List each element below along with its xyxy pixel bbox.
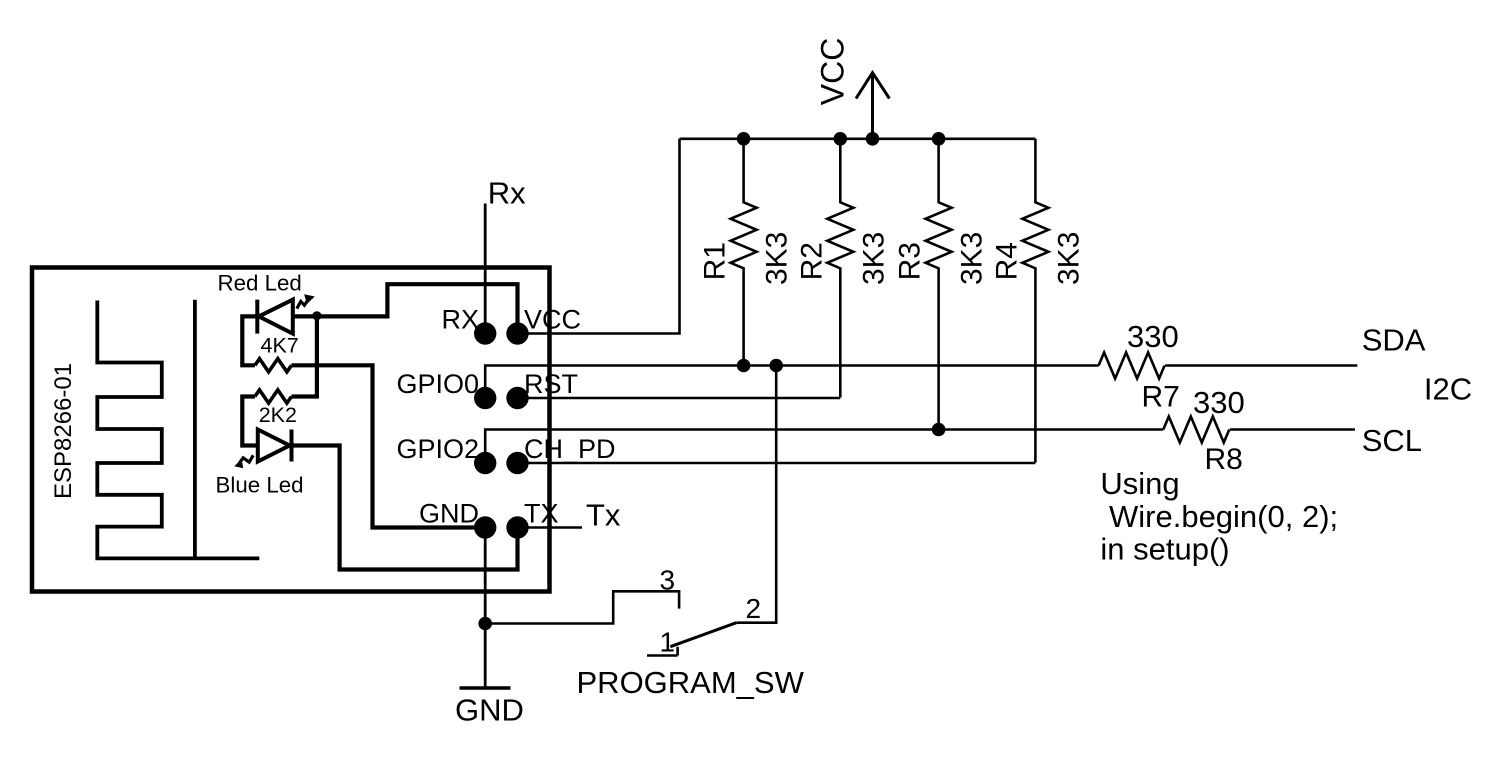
wire blue led cathode to TX pin	[292, 446, 518, 570]
pin CH_PD	[506, 452, 528, 474]
pin RST	[506, 387, 528, 409]
svg-text:330: 330	[1193, 385, 1245, 420]
resistor R8	[1163, 417, 1229, 443]
wire CH_PD net to R4	[518, 462, 1036, 465]
wire R7 to SDA label	[1165, 364, 1357, 367]
VCC power symbol stem	[871, 74, 874, 139]
svg-text:2K2: 2K2	[259, 403, 297, 427]
ground symbol bar	[460, 686, 511, 690]
junction GND switch	[478, 617, 492, 631]
svg-text:330: 330	[1127, 319, 1179, 354]
wire GND junction to switch pin3	[485, 591, 679, 623]
resistor 2K2	[255, 390, 292, 403]
resistor R1	[731, 139, 757, 366]
junction SDA switch	[769, 359, 783, 373]
wire junction to VCC pin over-route	[317, 284, 518, 324]
wire junction down to 2K2	[292, 316, 317, 396]
VCC power symbol arrow	[856, 73, 889, 99]
svg-text:3: 3	[660, 564, 676, 595]
wire TX net stub	[518, 526, 583, 529]
svg-text:GPIO0: GPIO0	[396, 369, 479, 399]
svg-text:RST: RST	[524, 369, 578, 399]
junction bus R1	[737, 132, 751, 146]
svg-text:ESP8266-01: ESP8266-01	[50, 363, 77, 499]
pin TX	[506, 516, 528, 538]
svg-text:R2: R2	[795, 242, 828, 280]
LED D2 light arrow	[239, 455, 253, 463]
svg-text:Using: Using	[1100, 466, 1179, 501]
svg-text:TX: TX	[524, 499, 559, 529]
svg-text:CH_PD: CH_PD	[524, 434, 616, 464]
svg-text:1: 1	[660, 627, 676, 658]
wire VCC pin to bus drop	[518, 139, 680, 334]
svg-text:R7: R7	[1142, 381, 1180, 414]
wire 2K2 left to blue led anode	[242, 397, 257, 446]
resistor R7	[1099, 353, 1165, 379]
module U1 box ESP8266-01	[32, 268, 550, 592]
junction bus VCC stem	[866, 132, 880, 146]
pin RX	[474, 322, 496, 344]
svg-text:3K3: 3K3	[1053, 232, 1086, 285]
svg-text:I2C: I2C	[1424, 372, 1472, 407]
pin GPIO0	[474, 387, 496, 409]
svg-text:3K3: 3K3	[956, 232, 989, 285]
wire SCL net GPIO2 to R8	[485, 430, 1163, 464]
svg-text:2: 2	[746, 593, 762, 624]
svg-text:GND: GND	[455, 693, 524, 728]
svg-text:R8: R8	[1205, 443, 1243, 476]
wire red led anode to junction	[293, 314, 317, 318]
svg-text:4K7: 4K7	[261, 334, 299, 358]
svg-text:RX: RX	[441, 305, 479, 335]
svg-text:GND: GND	[419, 499, 479, 529]
wire 4K7 right to GND pin	[292, 365, 477, 527]
switch pin1 stub	[647, 647, 678, 656]
LED D2 Blue Led triangle	[258, 430, 290, 462]
wire red led cathode to 4K7 left	[242, 316, 257, 365]
pin VCC	[506, 322, 528, 344]
LED D1 Red Led triangle	[259, 300, 293, 334]
resistor 4K7	[255, 359, 292, 372]
wire R8 to SCL label	[1230, 428, 1355, 431]
antenna feed line	[193, 300, 197, 559]
svg-text:Red Led: Red Led	[218, 271, 302, 296]
wire Rx net stub	[484, 204, 487, 334]
svg-text:R3: R3	[894, 242, 927, 280]
svg-text:VCC: VCC	[814, 38, 850, 106]
svg-text:SDA: SDA	[1362, 322, 1426, 357]
antenna meander	[97, 301, 259, 559]
LED D1 light arrow	[297, 300, 308, 309]
svg-text:Wire.begin(0, 2);: Wire.begin(0, 2);	[1100, 499, 1338, 534]
svg-text:SCL: SCL	[1362, 423, 1422, 458]
wire SDA net GPIO0 to R7	[485, 366, 1098, 399]
wire switch pin2 to SDA junction	[736, 366, 776, 623]
svg-text:VCC: VCC	[524, 305, 581, 335]
junction bus R2	[834, 132, 848, 146]
wire GND pin down	[484, 528, 487, 689]
junction SCL R3	[932, 423, 946, 437]
svg-text:3K3: 3K3	[857, 232, 890, 285]
pin GND	[474, 516, 496, 538]
junction led node	[312, 311, 321, 320]
svg-text:in setup(): in setup()	[1100, 532, 1229, 567]
svg-text:3K3: 3K3	[761, 232, 794, 285]
wire RST net RST pin to R2	[518, 397, 841, 400]
svg-text:Rx: Rx	[488, 175, 526, 210]
switch SW1 blade	[670, 623, 736, 647]
junction bus R3	[932, 132, 946, 146]
resistor R3	[926, 139, 952, 430]
svg-text:R1: R1	[699, 242, 732, 280]
svg-text:Blue Led: Blue Led	[216, 472, 304, 497]
junction SDA R1	[737, 359, 751, 373]
svg-text:R4: R4	[991, 242, 1024, 280]
resistor R4	[1022, 139, 1048, 463]
resistor R2	[827, 139, 853, 398]
svg-text:GPIO2: GPIO2	[396, 434, 479, 464]
pin GPIO2	[474, 452, 496, 474]
svg-text:Tx: Tx	[586, 498, 621, 533]
wire VCC bus	[680, 138, 1036, 141]
svg-text:PROGRAM_SW: PROGRAM_SW	[577, 665, 805, 700]
LED D2 Blue Led cathode bar	[290, 430, 294, 462]
LED D1 Red Led cathode bar	[255, 300, 259, 334]
